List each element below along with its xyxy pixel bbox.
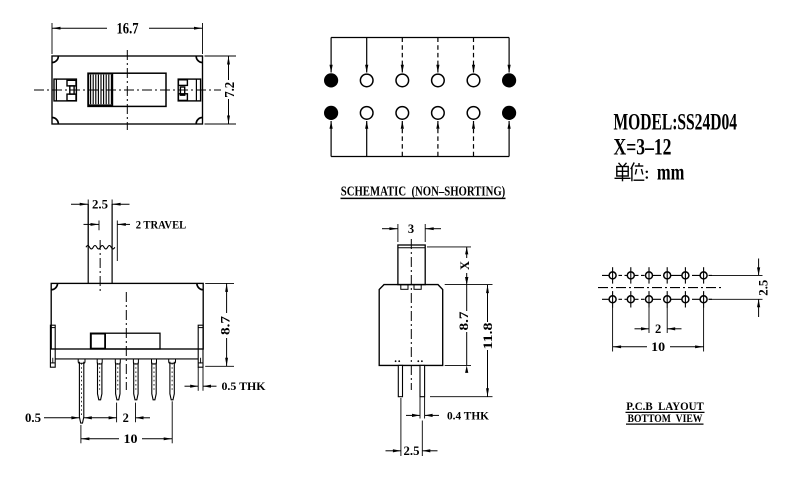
pcb layout: top row centerline bbox=[602, 274, 712, 276]
schematic: bottom wire/arrow to pole 2 bbox=[365, 121, 368, 157]
side view: front row pin bbox=[398, 365, 402, 396]
svg-text:2: 2 bbox=[655, 322, 661, 336]
schematic: top wire/arrow to pole 6 bbox=[508, 38, 511, 73]
dimension 16.7 line with arrows bbox=[52, 27, 203, 30]
dimension 2.5 line with arrows bbox=[71, 203, 130, 206]
top view: right contact terminal bbox=[178, 79, 200, 101]
top view: slider knob outline bbox=[88, 73, 166, 106]
dimension 8.7 line with arrows (front) bbox=[225, 283, 228, 366]
schematic: bottom row contact 6 (common, filled) bbox=[502, 106, 516, 120]
svg-text:10: 10 bbox=[124, 431, 138, 446]
svg-text:mm: mm bbox=[657, 159, 685, 184]
schematic: top wire/arrow to pole 3 bbox=[401, 38, 404, 73]
schematic: top row contact 6 (common, filled) bbox=[502, 73, 516, 87]
schematic: bottom row contact 1 (common, filled) bbox=[324, 106, 338, 120]
side view: extension line at body top bbox=[445, 284, 493, 286]
pcb layout: bottom row pad 1 bbox=[609, 291, 616, 307]
label: P.C.B LAYOUT underline bbox=[626, 411, 705, 413]
schematic: top wire/arrow to pole 5 bbox=[472, 38, 475, 73]
side view: pin center extension lines for 2.5 bbox=[401, 398, 422, 456]
schematic: top row contact 4 bbox=[432, 74, 445, 87]
svg-text:16.7: 16.7 bbox=[117, 20, 139, 37]
schematic: bottom wire/arrow to pole 6 bbox=[508, 121, 511, 157]
svg-text:0.5 THK: 0.5 THK bbox=[222, 379, 267, 393]
top view: vertical centerline bbox=[126, 50, 128, 130]
pcb layout: top row pad 1 bbox=[609, 267, 616, 283]
svg-text:2.5: 2.5 bbox=[404, 444, 420, 458]
top view: horizontal centerline bbox=[34, 89, 221, 91]
svg-text:2: 2 bbox=[123, 411, 129, 425]
svg-text:3: 3 bbox=[408, 222, 414, 236]
dimension 3 line with arrows bbox=[382, 227, 441, 230]
schematic: top row contact 3 bbox=[396, 74, 409, 87]
front view: stem break squiggle bbox=[86, 246, 115, 249]
side view: stem base tab right bbox=[414, 285, 421, 290]
svg-text:MODEL:SS24D04: MODEL:SS24D04 bbox=[614, 110, 738, 136]
front view: stem centerline bbox=[99, 240, 101, 292]
pcb layout: top row pad 4 bbox=[664, 267, 671, 283]
top view: body corner fillet bottom-right bbox=[196, 118, 202, 124]
dimension 2 extension ticks (pin pitch) bbox=[117, 403, 136, 423]
dimension 10 line with arrows (pcb) bbox=[613, 345, 704, 348]
front view: slider bottom block bbox=[91, 333, 161, 349]
schematic: bottom row contact 5 bbox=[467, 107, 480, 120]
front view: actuator stem bbox=[88, 204, 112, 284]
side view: stem base tab left bbox=[401, 285, 408, 290]
svg-text:2.5: 2.5 bbox=[92, 198, 108, 212]
front view: left mounting lug bbox=[50, 325, 55, 367]
schematic: top bus wire bbox=[331, 37, 509, 39]
pcb layout: bottom row centerline bbox=[602, 298, 712, 300]
side view: pin pass-through marks bbox=[395, 360, 423, 362]
svg-text:2.5: 2.5 bbox=[757, 280, 771, 296]
front view: right mounting lug bbox=[198, 325, 203, 367]
pcb layout: bottom row pad 6 bbox=[700, 291, 707, 307]
side view: pin edge extension lines for 0.4 THK bbox=[420, 397, 425, 419]
pcb layout: middle centerline bbox=[598, 287, 721, 289]
dimension 7.2 extension lines bbox=[205, 56, 237, 124]
front view: body corner fillet top-left bbox=[51, 283, 57, 289]
label: unit character WEI (CJK) bbox=[631, 163, 645, 182]
side view: actuator stem bbox=[398, 245, 425, 285]
pcb layout: extension lines for 10 bbox=[613, 307, 704, 352]
pcb layout: top row pad 6 bbox=[700, 267, 707, 283]
dimension 0.5 THK arrows (lug thickness) bbox=[185, 385, 217, 388]
dimension 2 arrows (pcb) bbox=[635, 327, 682, 330]
pcb layout: bottom row pad 5 bbox=[682, 291, 689, 307]
svg-text:BOTTOM VIEW: BOTTOM VIEW bbox=[628, 411, 703, 425]
dimension 8.7 extension lines (front) bbox=[205, 283, 234, 366]
schematic: bottom row contact 3 bbox=[396, 107, 409, 120]
schematic: bottom bus wire bbox=[331, 156, 509, 158]
pcb layout: top row pad 3 bbox=[646, 267, 653, 283]
pcb layout: top row pad 2 bbox=[627, 267, 634, 283]
schematic: bottom wire/arrow to pole 5 bbox=[472, 121, 475, 157]
svg-text:11.8: 11.8 bbox=[481, 323, 495, 350]
pcb layout: bottom row pad 2 bbox=[627, 291, 634, 307]
svg-text:SCHEMATIC (NON–SHORTING): SCHEMATIC (NON–SHORTING) bbox=[341, 184, 506, 199]
front view: base plate bbox=[55, 349, 198, 359]
svg-text:0.5: 0.5 bbox=[25, 411, 41, 425]
schematic: top row contact 5 bbox=[467, 74, 480, 87]
schematic: bottom wire/arrow to pole 3 bbox=[401, 121, 404, 157]
front view: terminal pin 1 bbox=[78, 359, 85, 423]
pcb layout: top row pad 5 bbox=[682, 267, 689, 283]
dimension X line with arrows bbox=[465, 247, 468, 285]
schematic: bottom wire/arrow to pole 4 bbox=[436, 121, 439, 157]
svg-text:8.7: 8.7 bbox=[218, 316, 232, 335]
top view: body corner fillet bottom-left bbox=[52, 118, 58, 124]
top view: left contact terminal bbox=[54, 79, 76, 101]
label: unit character DAN (CJK) bbox=[615, 163, 631, 182]
svg-text:X: X bbox=[458, 261, 472, 270]
dimension 2 TRAVEL tick marks bbox=[99, 221, 117, 262]
front view: slider block left square bbox=[91, 334, 105, 349]
pcb layout: row extension lines for 2.5 bbox=[709, 275, 763, 299]
dimension 7.2 line with arrows bbox=[227, 56, 230, 124]
front view: lug extension lines for 0.5 THK bbox=[198, 367, 203, 391]
side view: extension line at body bottom bbox=[445, 364, 471, 366]
dimension 2 TRAVEL arrows bbox=[84, 223, 131, 226]
dimension 10 line with arrows (front) bbox=[81, 437, 172, 440]
dimension 2.5 arrows (pin row pitch) bbox=[386, 449, 438, 452]
dimension 2.5 arrows (pcb rows) bbox=[757, 259, 760, 318]
front view: body outline bbox=[51, 283, 203, 349]
dimension 0.4 THK arrows bbox=[406, 414, 439, 417]
front view: terminal pin 4 bbox=[133, 359, 138, 400]
front view: terminal pin 2 bbox=[97, 359, 102, 400]
dimension 2 arrow (pin pitch) bbox=[136, 416, 151, 419]
dimension 16.7 extension lines bbox=[52, 23, 203, 54]
schematic: top row contact 2 bbox=[360, 74, 373, 87]
schematic: bottom wire/arrow to pole 1 bbox=[330, 121, 333, 157]
svg-text:10: 10 bbox=[651, 340, 665, 354]
front view: terminal pin 3 bbox=[115, 359, 120, 400]
side view: extension line at stem top bbox=[427, 246, 471, 248]
side view: back row pin bbox=[420, 365, 425, 396]
top view: body corner fillet top-right bbox=[196, 56, 202, 62]
dimension 8.7 line with arrows (side) bbox=[465, 277, 468, 373]
schematic: bottom row contact 2 bbox=[360, 107, 373, 120]
label: fullwidth colon bbox=[646, 171, 648, 179]
schematic: top wire/arrow to pole 1 bbox=[330, 38, 333, 73]
top view: knob ribbed grip section bbox=[88, 74, 112, 106]
dimension 11.8 line with arrows (side) bbox=[486, 285, 489, 397]
schematic: bottom row contact 4 bbox=[432, 107, 445, 120]
dimension 3 extension lines (stem width) bbox=[398, 224, 425, 242]
dimension 2.5 extension lines (stem width) bbox=[88, 200, 112, 247]
label: BOTTOM VIEW underline bbox=[626, 423, 704, 425]
front view: body corner fillet top-right bbox=[197, 283, 203, 289]
side view: vertical centerline bbox=[410, 239, 412, 390]
pcb layout: extension lines for 2 bbox=[649, 307, 667, 333]
svg-text:X=3–12: X=3–12 bbox=[614, 134, 672, 160]
svg-text:0.4 THK: 0.4 THK bbox=[447, 408, 490, 422]
svg-text:7.2: 7.2 bbox=[223, 82, 238, 98]
pcb layout: bottom row pad 3 bbox=[646, 291, 653, 307]
front view: body centerline bbox=[125, 292, 127, 390]
svg-text:2 TRAVEL: 2 TRAVEL bbox=[136, 217, 187, 231]
dimension 10 extension lines (front) bbox=[81, 401, 172, 443]
schematic: top wire/arrow to pole 2 bbox=[365, 38, 368, 73]
schematic: top row contact 1 (common, filled) bbox=[324, 73, 338, 87]
schematic title underline bbox=[341, 197, 506, 199]
dimension 0.5 leader and arrows (pin width) bbox=[44, 416, 117, 419]
top view: body corner fillet top-left bbox=[52, 56, 58, 62]
svg-text:8.7: 8.7 bbox=[457, 312, 471, 331]
side view: extension line at pin tip bbox=[430, 396, 493, 398]
front view: terminal pin 5 bbox=[152, 359, 157, 400]
front view: terminal pin 6 bbox=[169, 359, 176, 400]
top view: switch body outline bbox=[52, 56, 203, 124]
schematic: top wire/arrow to pole 4 bbox=[436, 38, 439, 73]
side view: stem top cap line bbox=[398, 247, 425, 249]
side view: body outline with chamfered corners bbox=[379, 285, 443, 366]
pcb layout: bottom row pad 4 bbox=[664, 291, 671, 307]
